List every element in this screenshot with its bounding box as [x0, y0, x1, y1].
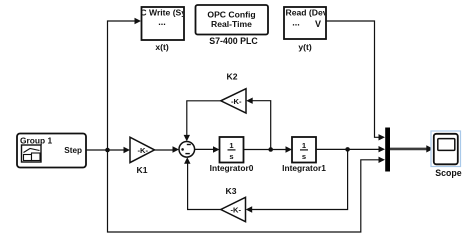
svg-text:Group 1: Group 1 [20, 136, 52, 146]
svg-text:Integrator1: Integrator1 [282, 163, 326, 173]
svg-text:Real-Time: Real-Time [211, 19, 252, 29]
sum S1 [179, 142, 195, 158]
wire Mux to Scope [390, 148, 428, 151]
svg-text:...: ... [158, 17, 166, 27]
svg-text:s: s [229, 152, 233, 161]
svg-text:-K-: -K- [138, 146, 149, 155]
svg-text:-K-: -K- [231, 206, 242, 215]
wire Sum to Integrator0 [195, 148, 214, 150]
arrow into K2 [246, 98, 253, 104]
arrow into Integrator0 [213, 146, 220, 152]
svg-text:Integrator0: Integrator0 [210, 163, 254, 173]
wire OPC Read to Mux input 1 [326, 21, 379, 137]
wire K1 to Sum [155, 149, 175, 151]
svg-text:K2: K2 [227, 72, 238, 82]
svg-text:V: V [315, 19, 321, 29]
wire Step to K1 [86, 149, 125, 151]
wire node B up to K2 [252, 101, 271, 150]
svg-text:K3: K3 [226, 186, 237, 196]
arrow into Sum bottom [184, 157, 190, 164]
svg-text:s: s [302, 152, 306, 161]
arrow into Scope [426, 145, 433, 152]
gain K2 [221, 89, 246, 113]
block U2 OPC Read [284, 7, 328, 39]
svg-text:...: ... [292, 18, 300, 28]
arrow into Mux input 3 [379, 157, 386, 163]
svg-text:Read (Dev: Read (Dev [286, 8, 328, 18]
wire Integrator1 to Mux input 2 [316, 148, 379, 150]
svg-text:Scope: Scope [435, 168, 462, 178]
node B junction [268, 147, 273, 152]
svg-text:S7-400 PLC: S7-400 PLC [209, 36, 258, 46]
svg-text:PC Write (Syn: PC Write (Syn [135, 8, 192, 18]
arrow into Sum top [184, 135, 190, 142]
wire Integrator0 to Integrator1 [244, 149, 287, 151]
node A junction [105, 148, 110, 153]
block U1 OPC Write [135, 7, 192, 40]
arrow into K3 [246, 206, 253, 212]
arrow into Sum left [173, 146, 180, 152]
wire K3 to Sum bottom [188, 163, 221, 210]
mux M1 [385, 128, 390, 172]
wire node A down along bottom to Mux input 3 [108, 150, 380, 232]
block Signal Builder Group 1 [17, 134, 86, 168]
svg-text:y(t): y(t) [298, 42, 312, 52]
node C junction [345, 147, 350, 152]
wire node C down to K3 [252, 149, 348, 209]
arrow into Mux input 1 [379, 134, 386, 140]
wire node A up to OPC Write [108, 21, 136, 150]
gain K1 [130, 137, 155, 162]
arrow into Integrator1 [286, 146, 293, 152]
svg-text:x(t): x(t) [155, 42, 169, 52]
arrow into Mux input 2 [379, 146, 386, 152]
block OPC Config [196, 5, 269, 35]
arrow into K1 [124, 147, 131, 153]
arrow into OPC Write [135, 18, 142, 24]
svg-text:OPC Config: OPC Config [207, 10, 255, 20]
gain K3 [221, 197, 246, 221]
block Scope [431, 131, 461, 167]
block Integrator0 [220, 137, 244, 163]
block Integrator1 [292, 137, 316, 163]
svg-text:-K-: -K- [231, 97, 242, 106]
wire K2 to Sum top [187, 101, 221, 136]
svg-text:K1: K1 [137, 165, 148, 175]
svg-text:Step: Step [64, 146, 82, 155]
